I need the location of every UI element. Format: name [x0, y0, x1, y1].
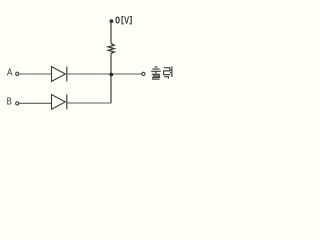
diode D1 (anode A)	[52, 67, 67, 82]
wire from D1 cathode through junction to output	[67, 73, 142, 75]
resistor R1 (zigzag)	[108, 44, 114, 54]
terminal output (open circle)	[142, 72, 145, 75]
svg-text:B: B	[7, 97, 12, 108]
terminal 0V (filled dot)	[110, 19, 114, 23]
terminal A (open circle)	[16, 72, 19, 75]
wire vertical from 0V terminal to resistor	[110, 21, 112, 44]
label output (Hangul 출)	[151, 67, 161, 79]
junction node (filled dot)	[109, 73, 113, 77]
wire vertical from resistor through junction down to B row	[110, 53, 112, 103]
svg-text:0: 0	[115, 16, 120, 27]
svg-text:V: V	[124, 16, 129, 27]
terminal B (open circle)	[16, 102, 19, 105]
label output (Hangul 력)	[164, 66, 172, 78]
diode D2 (anode B)	[52, 95, 67, 110]
svg-text:A: A	[7, 68, 13, 79]
wire from D2 cathode to vertical riser	[67, 102, 112, 104]
wire A to diode D1	[19, 73, 52, 75]
wire B to diode D2	[19, 102, 52, 104]
